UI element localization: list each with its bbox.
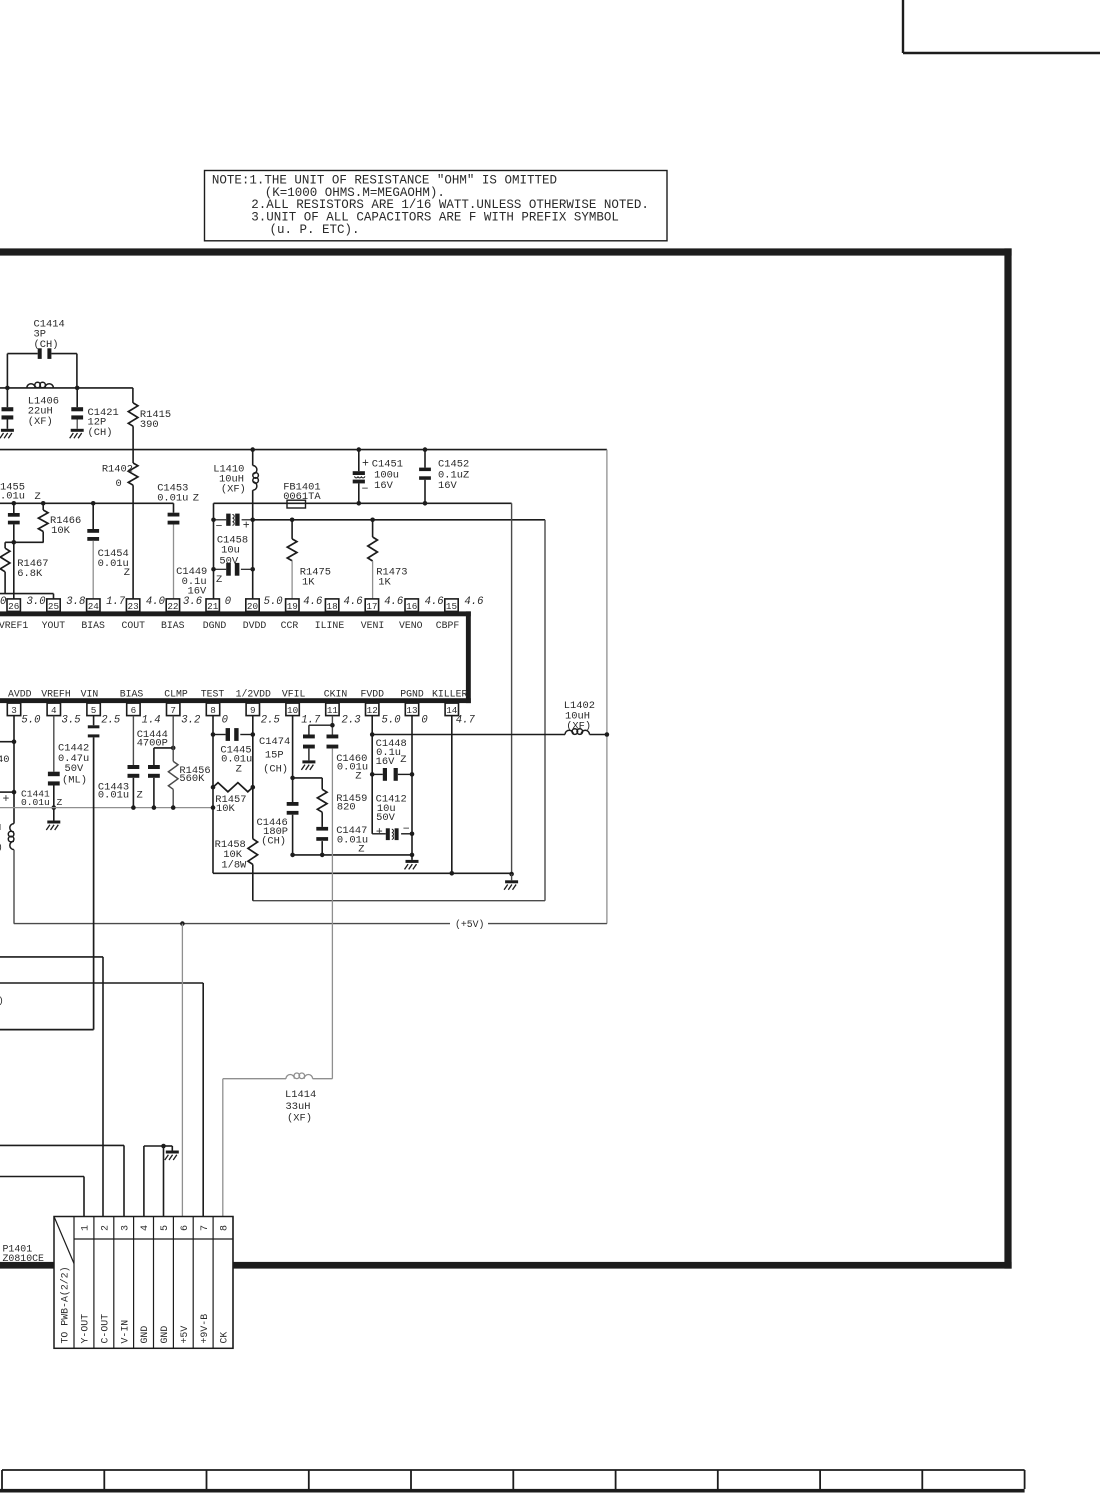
wire stub to left edge y=792.1 xyxy=(0,791,14,793)
svg-text:1/2VDD: 1/2VDD xyxy=(236,688,271,699)
svg-text:2.5: 2.5 xyxy=(101,715,121,727)
svg-text:0.01u: 0.01u xyxy=(98,789,129,801)
svg-text:2: 2 xyxy=(100,1225,111,1231)
svg-text:.01u: .01u xyxy=(0,490,25,502)
node C1414/L1406 left xyxy=(5,386,10,391)
wire Y-OUT net to connector pin 1 xyxy=(0,1176,84,1178)
svg-text:1K: 1K xyxy=(302,577,315,589)
svg-text:): ) xyxy=(0,995,4,1006)
capacitor C1421 xyxy=(76,388,78,407)
svg-text:4.6: 4.6 xyxy=(384,596,404,608)
wire C-OUT net to connector pin 2 xyxy=(0,956,103,958)
svg-text:GND: GND xyxy=(159,1326,170,1344)
svg-text:VREF1: VREF1 xyxy=(0,620,28,631)
svg-text:2.5: 2.5 xyxy=(261,715,281,727)
wire pin 12 FVDD column xyxy=(371,716,373,834)
svg-text:10K: 10K xyxy=(51,525,70,537)
wire x=511.6 down from DVDD net xyxy=(511,503,513,874)
svg-text:(CH): (CH) xyxy=(263,764,288,776)
wire V-IN net to connector pin 3 xyxy=(0,1144,124,1146)
svg-text:CBPF: CBPF xyxy=(436,620,460,631)
wire +5V rail y=924.4 xyxy=(14,923,450,925)
svg-text:AVDD: AVDD xyxy=(8,688,32,699)
wire C1414 left lead xyxy=(7,353,37,355)
node +5V to connector xyxy=(180,921,185,926)
resistor R1473 xyxy=(370,518,375,523)
svg-text:4700P: 4700P xyxy=(137,737,168,749)
ground below C1421 xyxy=(71,429,84,432)
wire stub to left edge y=741.7 xyxy=(0,741,14,743)
node pin13/y=854.9 xyxy=(410,853,415,858)
svg-text:7: 7 xyxy=(170,705,176,716)
svg-text:22: 22 xyxy=(167,601,178,612)
notes box xyxy=(205,171,668,241)
pin 25 xyxy=(47,599,60,612)
inductor L1410 xyxy=(250,447,255,452)
connector diagonal mark xyxy=(54,1217,74,1264)
pin 10 xyxy=(286,703,299,716)
svg-text:21: 21 xyxy=(207,601,219,612)
capacitor C1446 xyxy=(287,802,299,806)
svg-text:(CH): (CH) xyxy=(88,427,113,439)
node AVDD stub 2 xyxy=(12,790,17,795)
svg-text:VENI: VENI xyxy=(361,620,385,631)
node C1445 left xyxy=(211,732,216,737)
svg-text:3: 3 xyxy=(120,1225,131,1231)
svg-text:YOUT: YOUT xyxy=(42,620,66,631)
svg-text:Y-OUT: Y-OUT xyxy=(80,1314,91,1344)
node pin10/R1459 branch xyxy=(290,776,295,781)
ground below left capacitor xyxy=(1,429,14,432)
svg-text:Z: Z xyxy=(400,754,406,766)
svg-text:C1474: C1474 xyxy=(259,736,290,748)
svg-text:820: 820 xyxy=(337,802,356,814)
svg-text:VREFH: VREFH xyxy=(41,688,71,699)
node C1454 top xyxy=(91,501,96,506)
wire pin 9 VFIL column xyxy=(252,716,254,839)
wire BIAS net y=503.3 left xyxy=(0,502,174,504)
wire pin 3 AVDD column xyxy=(13,716,15,742)
svg-text:R1402: R1402 xyxy=(102,464,133,476)
wire y=900.7 to pin 9 column xyxy=(253,900,545,902)
wire YOUT to pin 25 xyxy=(0,593,54,595)
svg-text:3.0: 3.0 xyxy=(27,596,46,608)
svg-text:DVDD: DVDD xyxy=(243,620,267,631)
resistor R1459 xyxy=(321,778,323,789)
node pin7/C1444 xyxy=(171,746,176,751)
svg-text:+: + xyxy=(376,826,383,839)
svg-text:16V: 16V xyxy=(376,756,395,768)
svg-text:26: 26 xyxy=(8,601,19,612)
node C1446 bottom xyxy=(290,853,295,858)
pin 9 xyxy=(246,703,259,716)
pin 22 xyxy=(166,599,179,612)
wire pin 13 PGND column xyxy=(411,716,413,860)
pin 15 xyxy=(445,599,458,612)
schematic frame border xyxy=(0,248,1012,255)
pin 7 xyxy=(167,703,180,716)
svg-text:TEST: TEST xyxy=(201,688,225,699)
svg-text:C-OUT: C-OUT xyxy=(99,1314,110,1344)
svg-text:0: 0 xyxy=(0,596,6,608)
ground at connector xyxy=(166,1151,179,1154)
svg-text:4.7: 4.7 xyxy=(456,715,476,727)
svg-text:+5V: +5V xyxy=(179,1326,190,1344)
svg-text:L1414: L1414 xyxy=(285,1089,316,1101)
node y=807.6 right end xyxy=(211,805,216,810)
svg-text:0: 0 xyxy=(421,715,427,727)
svg-text:(CH): (CH) xyxy=(261,835,286,847)
resistor R1467 xyxy=(4,542,6,548)
svg-text:5.0: 5.0 xyxy=(382,715,401,727)
wire +9V-B net to connector pin 7 xyxy=(0,982,203,984)
svg-text:24: 24 xyxy=(88,601,100,612)
node C1444 bottom xyxy=(152,805,157,810)
ground below C1474 xyxy=(302,760,315,763)
capacitor C1460 xyxy=(327,735,339,739)
capacitor C1447 xyxy=(316,827,328,831)
svg-text:−: − xyxy=(362,483,369,496)
capacitor C1452 xyxy=(423,447,428,452)
wire pin 8 TEST column xyxy=(212,716,214,874)
svg-text:Z: Z xyxy=(358,844,364,856)
ground below C1442 xyxy=(47,821,60,824)
capacitor C1414 xyxy=(38,348,42,359)
svg-text:V-IN: V-IN xyxy=(119,1320,130,1344)
svg-text:3.8: 3.8 xyxy=(66,596,85,608)
svg-text:GND: GND xyxy=(139,1326,150,1344)
svg-text:(CH): (CH) xyxy=(34,339,59,351)
node GND junction xyxy=(161,1144,166,1149)
svg-text:15P: 15P xyxy=(265,750,284,762)
wire VIN column down xyxy=(93,737,95,1029)
node ground junction x=511.6 xyxy=(509,872,514,877)
wire x=545 down to y=901.2 xyxy=(544,520,546,901)
svg-text:20: 20 xyxy=(247,601,258,612)
svg-text:25: 25 xyxy=(48,601,59,612)
svg-text:0: 0 xyxy=(115,478,121,490)
svg-text:0.01u: 0.01u xyxy=(21,797,50,808)
svg-text:0.01u: 0.01u xyxy=(157,492,188,504)
svg-text:Z: Z xyxy=(216,574,222,586)
pin 19 xyxy=(286,599,299,612)
svg-text:+: + xyxy=(362,457,369,470)
pin 24 xyxy=(87,599,100,612)
node C1442 bottom xyxy=(52,805,57,810)
node C1414/C1421 right xyxy=(75,386,80,391)
svg-text:Z: Z xyxy=(35,491,41,503)
svg-text:(ML): (ML) xyxy=(62,775,87,787)
svg-text:4.6: 4.6 xyxy=(425,596,445,608)
svg-text:+9V-B: +9V-B xyxy=(199,1314,210,1344)
node L1402 right / +5V column xyxy=(605,732,610,737)
node pin14/y=873.3 xyxy=(450,871,455,876)
svg-text:12: 12 xyxy=(367,705,378,716)
svg-text:6.8K: 6.8K xyxy=(17,568,43,580)
svg-text:33uH: 33uH xyxy=(286,1101,311,1113)
wire FVDD net y=734.5 to L1402 xyxy=(372,734,565,736)
wire R1402 to pin 23 xyxy=(132,485,134,599)
svg-text:18: 18 xyxy=(327,601,338,612)
wire pin 11 CKIN node xyxy=(331,716,333,735)
svg-text:4: 4 xyxy=(140,1225,151,1231)
svg-text:6: 6 xyxy=(131,705,137,716)
svg-text:11: 11 xyxy=(327,705,339,716)
wire CK net: pin11 to connector pin 8 via L1414 xyxy=(222,1079,224,1217)
svg-text:5.0: 5.0 xyxy=(21,715,40,727)
svg-text:4.0: 4.0 xyxy=(146,596,165,608)
pin 17 xyxy=(365,599,378,612)
svg-text:−: − xyxy=(403,823,410,836)
resistor R1466 xyxy=(42,503,44,510)
resistor R1415 xyxy=(132,388,134,403)
svg-text:(XF): (XF) xyxy=(28,416,53,428)
inductor L1402 xyxy=(565,730,573,734)
svg-text:VIN: VIN xyxy=(81,688,99,699)
node R1456 bottom xyxy=(171,805,176,810)
capacitor C1454 xyxy=(92,503,94,529)
svg-text:FVDD: FVDD xyxy=(361,688,385,699)
svg-text:2.3: 2.3 xyxy=(342,715,361,727)
resistor R1402 xyxy=(128,463,138,485)
capacitor in series with pin 5 VIN xyxy=(93,716,95,726)
wire pin 14 KILLER column xyxy=(451,716,453,874)
svg-text:Z: Z xyxy=(137,789,143,801)
svg-text:5: 5 xyxy=(160,1225,171,1231)
pin 11 xyxy=(326,703,339,716)
wire pin21 column x=213.5 xyxy=(213,503,215,599)
wire VIN to left edge y=1029.6 xyxy=(0,1029,94,1031)
svg-text:0061TA: 0061TA xyxy=(283,491,321,503)
wire CKIN column down xyxy=(331,749,333,1079)
svg-text:7: 7 xyxy=(200,1225,211,1231)
capacitor C1445 xyxy=(213,734,226,736)
svg-text:+: + xyxy=(243,520,250,533)
wire GND pins 4/5 xyxy=(143,1146,145,1217)
svg-text:Z: Z xyxy=(57,797,63,808)
svg-text:50V: 50V xyxy=(65,763,84,775)
capacitor C1442 xyxy=(53,716,55,772)
svg-text:(XF): (XF) xyxy=(287,1113,312,1125)
svg-text:CLMP: CLMP xyxy=(164,688,188,699)
wire to pin 26 xyxy=(13,542,15,599)
svg-text:Z: Z xyxy=(124,567,130,579)
ferrite bead FB1401 xyxy=(287,500,306,508)
wire DVDD top rail y=449.6 xyxy=(0,449,607,451)
pin 14 xyxy=(445,703,458,716)
svg-text:Z: Z xyxy=(236,764,242,776)
svg-text:16: 16 xyxy=(406,601,417,612)
svg-text:BIAS: BIAS xyxy=(161,620,185,631)
inductor L1414 xyxy=(286,1075,294,1079)
corner box top-right xyxy=(902,0,904,53)
svg-text:4.6: 4.6 xyxy=(344,596,364,608)
node C1445 right xyxy=(251,732,256,737)
svg-text:3: 3 xyxy=(11,705,17,716)
capacitor C1451 (electrolytic) xyxy=(357,447,362,452)
svg-text:16V: 16V xyxy=(438,480,457,492)
node R1457 left xyxy=(211,785,216,790)
svg-text:(XF): (XF) xyxy=(566,721,591,733)
svg-text:8: 8 xyxy=(220,1225,231,1231)
inductor L1401 (label cut) xyxy=(10,824,14,832)
svg-text:VFIL: VFIL xyxy=(282,688,306,699)
svg-text:CCR: CCR xyxy=(281,620,299,631)
wire C1455/R1466 bottom net xyxy=(5,541,44,543)
pin 13 xyxy=(405,703,418,716)
svg-text:PGND: PGND xyxy=(400,688,424,699)
svg-text:16V: 16V xyxy=(374,480,393,492)
svg-text:ILINE: ILINE xyxy=(315,620,345,631)
node C1412 right xyxy=(410,832,415,837)
wire y=854.9 xyxy=(293,854,412,856)
capacitor C1453 xyxy=(173,503,175,512)
node R1457 right xyxy=(251,785,256,790)
svg-text:COUT: COUT xyxy=(122,620,146,631)
svg-text:DGND: DGND xyxy=(203,620,227,631)
node pin11/C1474 xyxy=(330,723,335,728)
svg-text:40: 40 xyxy=(0,754,9,766)
svg-text:9: 9 xyxy=(250,705,256,716)
svg-text:VENO: VENO xyxy=(399,620,423,631)
svg-text:(XF): (XF) xyxy=(221,484,246,496)
svg-text:390: 390 xyxy=(140,419,159,431)
svg-text:23: 23 xyxy=(128,601,139,612)
svg-text:1.7: 1.7 xyxy=(106,596,126,608)
svg-text:1K: 1K xyxy=(378,577,391,589)
svg-text:10: 10 xyxy=(287,705,298,716)
svg-text:10K: 10K xyxy=(216,803,235,815)
svg-text:0.01u: 0.01u xyxy=(337,762,368,774)
svg-text:H: H xyxy=(0,822,1,833)
pin 12 xyxy=(366,703,379,716)
capacitor C1412 (electrolytic) xyxy=(372,833,386,835)
capacitor C1458 (electrolytic) xyxy=(211,518,216,523)
capacitor C1443 xyxy=(132,716,134,765)
svg-text:C1451: C1451 xyxy=(372,458,403,470)
svg-text:1/8W: 1/8W xyxy=(221,860,247,872)
svg-text:CKIN: CKIN xyxy=(324,688,348,699)
wire right +5V drop x=606.9 xyxy=(606,450,608,924)
pin 26 xyxy=(7,599,20,612)
svg-text:3.6: 3.6 xyxy=(183,596,203,608)
wire net y=519.8 xyxy=(253,519,545,521)
node C1447 bottom xyxy=(320,853,325,858)
pin 5 xyxy=(87,703,100,716)
svg-text:C1452: C1452 xyxy=(438,458,469,470)
title block table xyxy=(2,1469,1025,1471)
pin 3 xyxy=(7,703,20,716)
svg-text:4.6: 4.6 xyxy=(464,596,484,608)
connector column dividers xyxy=(73,1217,75,1349)
capacitor C1455 xyxy=(13,503,15,513)
ground below pin 13 xyxy=(406,860,419,863)
wire DVDD net y=503.3 right through FB1401 xyxy=(214,502,512,504)
svg-text:Z: Z xyxy=(355,771,361,783)
svg-text:1.4: 1.4 xyxy=(142,715,161,727)
svg-text:17: 17 xyxy=(366,601,377,612)
svg-text:KILLER: KILLER xyxy=(432,688,467,699)
node VREF1 xyxy=(12,540,17,545)
svg-text:Z0810CE: Z0810CE xyxy=(3,1253,45,1264)
svg-text:CK: CK xyxy=(219,1332,230,1344)
svg-text:+: + xyxy=(3,793,10,806)
svg-text:Z: Z xyxy=(193,492,199,504)
node FVDD rail start xyxy=(370,732,375,737)
svg-text:8: 8 xyxy=(210,705,216,716)
pin 18 xyxy=(325,599,338,612)
wire pin 10 column / C1446 xyxy=(292,716,294,778)
pin 16 xyxy=(405,599,418,612)
wire y=873.3 xyxy=(213,872,512,874)
wire VFIL decoupling net y=807.6 xyxy=(0,807,213,809)
svg-text:0: 0 xyxy=(222,715,228,727)
svg-text:(u. P. ETC).: (u. P. ETC). xyxy=(270,223,360,237)
svg-text:): ) xyxy=(0,842,3,853)
svg-text:5.0: 5.0 xyxy=(264,596,283,608)
svg-text:1: 1 xyxy=(81,1225,92,1231)
wire top-left net xyxy=(0,387,133,389)
pin 21 xyxy=(206,599,219,612)
svg-text:4: 4 xyxy=(51,705,57,716)
connector P1401 outline xyxy=(54,1217,233,1349)
connector header divider xyxy=(74,1238,233,1240)
svg-text:3.5: 3.5 xyxy=(62,715,82,727)
svg-text:13: 13 xyxy=(406,705,417,716)
pin 20 xyxy=(246,599,259,612)
svg-text:BIAS: BIAS xyxy=(120,688,144,699)
node AVDD stub xyxy=(12,739,17,744)
svg-text:(+5V): (+5V) xyxy=(455,919,484,930)
capacitor at left edge (cut) xyxy=(6,388,8,407)
wire +5V to connector pin 6 xyxy=(181,924,183,1217)
svg-text:560K: 560K xyxy=(179,773,205,785)
svg-text:3.2: 3.2 xyxy=(181,715,200,727)
capacitor C1449 xyxy=(211,567,216,572)
inductor L1406 xyxy=(27,384,35,388)
resistor R1458 xyxy=(248,839,258,865)
pin 8 xyxy=(206,703,219,716)
svg-text:19: 19 xyxy=(287,601,298,612)
node R1466 top xyxy=(41,501,46,506)
node C1443 bottom xyxy=(131,805,136,810)
svg-text:15: 15 xyxy=(446,601,457,612)
wire C1414 right lead xyxy=(51,353,77,355)
pin 23 xyxy=(126,599,139,612)
resistor R1475 xyxy=(290,518,295,523)
resistor R1456 xyxy=(172,716,174,748)
svg-text:0: 0 xyxy=(225,596,231,608)
node C1455 top xyxy=(12,501,17,506)
capacitor C1448 xyxy=(370,772,375,777)
svg-text:BIAS: BIAS xyxy=(81,620,105,631)
svg-text:50V: 50V xyxy=(376,812,395,824)
ground below x=511.6 xyxy=(505,880,518,883)
svg-text:5: 5 xyxy=(91,705,97,716)
pin 6 xyxy=(127,703,140,716)
svg-text:4.6: 4.6 xyxy=(303,596,323,608)
resistor R1457 xyxy=(213,783,253,792)
svg-text:−: − xyxy=(216,521,223,534)
IC U1401 body (cut at left edge) xyxy=(0,611,471,616)
svg-text:6: 6 xyxy=(180,1225,191,1231)
svg-text:TO PWB-A(2/2): TO PWB-A(2/2) xyxy=(59,1266,70,1343)
capacitor C1474 xyxy=(303,735,315,739)
pin 4 xyxy=(47,703,60,716)
